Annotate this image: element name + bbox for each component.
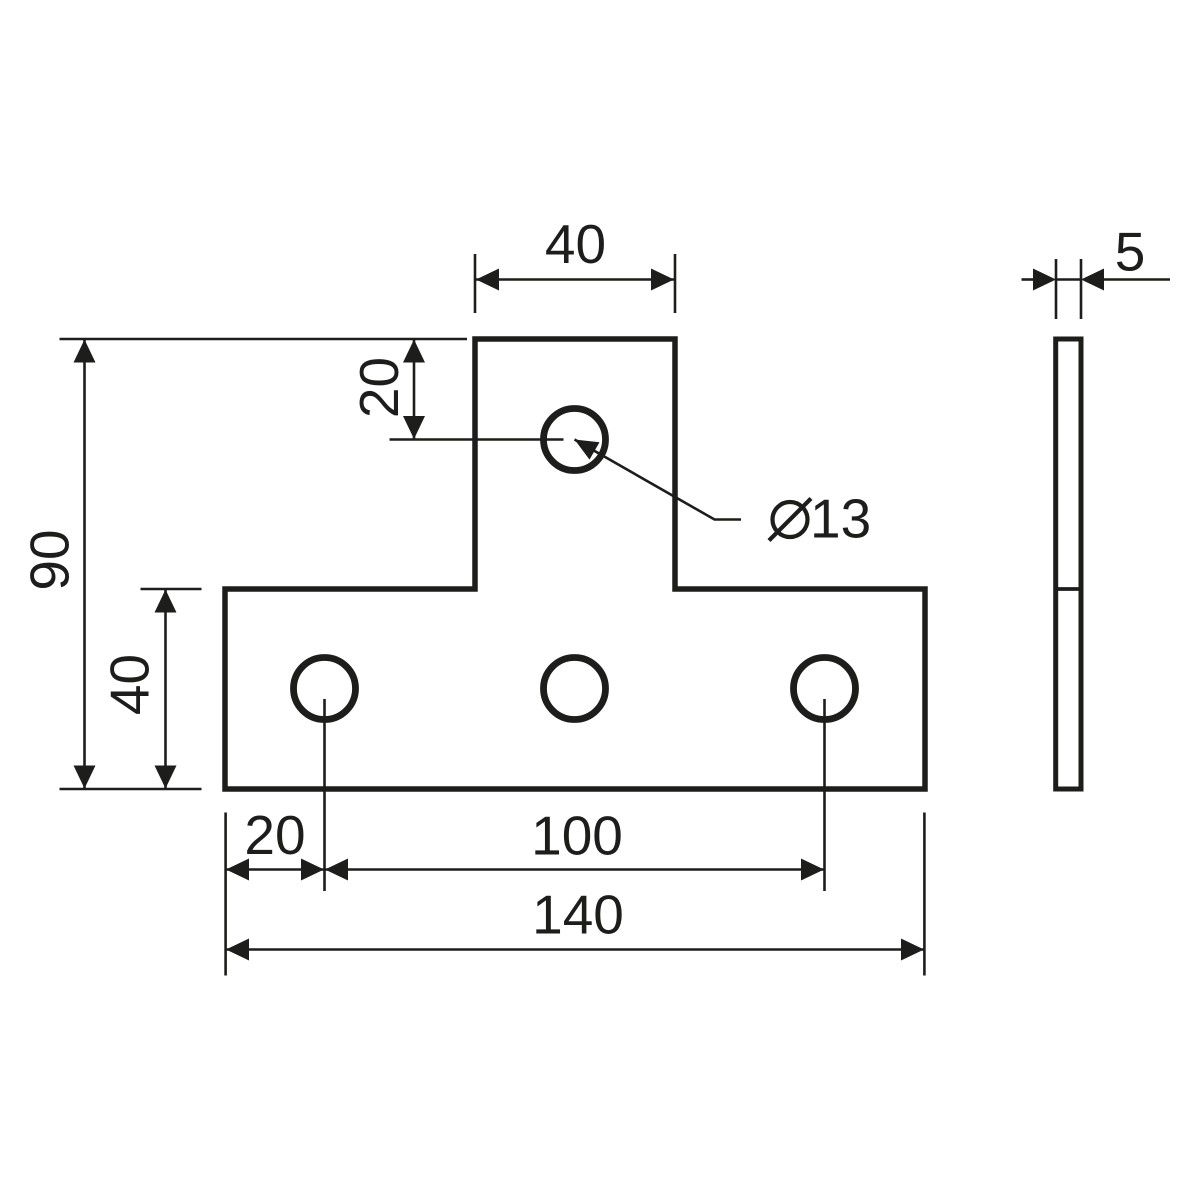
svg-text:40: 40 [545,213,606,275]
dimension line 20 vertical top [413,340,416,439]
extension line from bottom-right hole [823,699,826,891]
arrowhead dim 100 left [325,859,348,881]
arrowhead dim 20 top up [403,340,425,363]
extension line left of dim 40 top [474,254,477,313]
dimension line 100 [325,868,824,871]
arrowhead dim 5 left (points right) [1033,269,1056,291]
dimension line 140 [226,948,924,951]
dimension line 40 left [164,590,167,788]
hole top (Ø13) [544,409,606,471]
extension line right of dim 40 top [674,254,677,313]
arrowhead dim 20 bottom left [226,859,249,881]
dimension line 20 bottom [226,868,324,871]
extension line from bottom-left hole [323,699,326,891]
arrowhead dim 40 left down [155,766,177,789]
arrowhead leader Ø13 [575,440,600,460]
arrowhead dim 90 down [74,766,96,789]
svg-text:20: 20 [348,357,410,418]
extension line top of dim 90 [60,338,468,341]
dimension tail right of dim 5 [1103,278,1170,281]
extension line bottom-right plate corner [923,813,926,976]
arrowhead dim 90 up [74,340,96,363]
arrowhead dim 140 left [226,939,249,961]
arrowhead dim 5 right (points left) [1081,269,1104,291]
arrowhead dim 40 top left [476,269,499,291]
svg-text:5: 5 [1115,221,1146,283]
svg-text:140: 140 [532,884,624,946]
extension line top of dim 40 left [141,588,202,591]
leader line to Ø13 label [575,440,742,520]
dimension line 90 [83,340,86,788]
extension line bottom-left plate corner [224,813,227,976]
thin dimension linework [60,254,1171,976]
svg-text:13: 13 [810,488,871,550]
svg-text:90: 90 [19,529,81,590]
side view step edge line [1056,587,1081,591]
extension line at top hole center [390,438,564,441]
arrowhead dim 20 bottom right [301,859,324,881]
extension line right of dim 5 [1080,259,1083,319]
arrowhead dim 100 right [801,859,824,881]
svg-text:100: 100 [531,805,623,867]
dimension line 5 between extensions [1056,278,1081,281]
Ø symbol circle of Ø13 label [773,502,808,537]
svg-text:40: 40 [99,654,161,715]
plate outline (front view, T-shape) [225,339,925,789]
Ø symbol slash [769,499,811,541]
side view plate outline [1056,339,1081,789]
arrowhead dim 40 left up [155,590,177,613]
arrowhead dim 20 top down [403,416,425,439]
extension line left of dim 5 [1055,259,1058,319]
arrowhead dim 40 top right [651,269,674,291]
dimension tail left of dim 5 [1022,278,1035,281]
svg-text:20: 20 [244,804,305,866]
dimension line 40 top [476,278,674,281]
extension line bottom of dim 90 and 40 [60,788,202,791]
hole bottom-right [794,658,856,720]
hole bottom-middle [544,658,606,720]
hole bottom-left [294,658,356,720]
arrowhead dim 140 right [901,939,924,961]
